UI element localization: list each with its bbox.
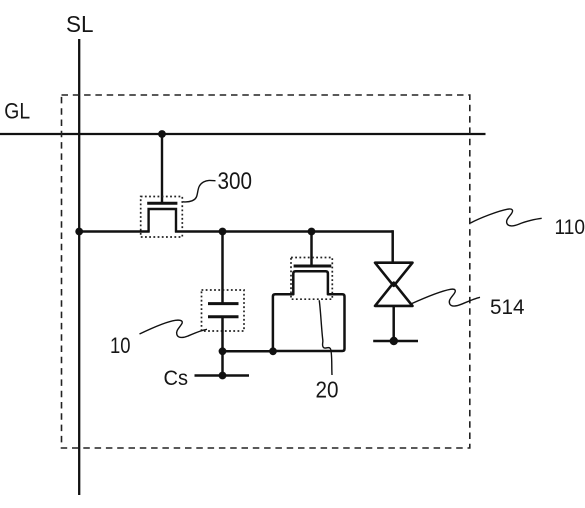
wire pixel node row (right segment from T300 to diode corner)	[175, 230, 393, 233]
svg-text:Cs: Cs	[164, 366, 189, 390]
wire diode cathode lead	[392, 306, 395, 341]
transistor 300 dotted outline box	[141, 197, 183, 238]
label 20	[316, 376, 339, 402]
label 514	[490, 295, 525, 319]
node junction dot at diode bottom	[390, 337, 398, 345]
node junction dot at element 20 bottom-left corner	[269, 347, 277, 355]
leader line to 300	[183, 180, 216, 201]
leader line to 514	[411, 289, 480, 306]
label 10	[110, 333, 131, 358]
wire gate of transistor 300	[161, 134, 163, 202]
transistor 20 channel and body outline	[273, 271, 345, 351]
wire pixel node row (left segment from SL to T300)	[79, 230, 149, 233]
leader line to 110	[471, 209, 542, 226]
transistor 300 channel/source-drain	[149, 209, 176, 233]
diode 514 lower triangle	[375, 283, 413, 306]
capacitor 10 bottom plate	[208, 315, 239, 318]
node junction dot on GL	[158, 130, 166, 138]
wire corner from node row down to diode 514	[391, 230, 394, 262]
node junction dot between cap and element 20 wire	[219, 347, 227, 355]
capacitor 10 top plate	[208, 302, 239, 305]
node junction dot gate branch of element 20	[308, 228, 316, 236]
label 110	[555, 215, 585, 239]
transistor 20 dotted outline box	[291, 258, 332, 300]
svg-text:20: 20	[316, 376, 339, 402]
wire capacitor bottom lead down to Cs	[221, 317, 224, 376]
svg-text:514: 514	[490, 295, 525, 319]
wire GL gate line (horizontal)	[0, 133, 486, 135]
leader line to 10	[140, 320, 208, 337]
node junction dot capacitor branch	[219, 228, 227, 236]
node junction dot at SL	[75, 228, 83, 236]
svg-text:GL: GL	[4, 99, 30, 124]
node SL label	[66, 11, 94, 37]
node GL label	[4, 99, 30, 124]
label 300	[218, 168, 253, 195]
common electrode terminal bar	[373, 340, 418, 342]
svg-text:300: 300	[218, 168, 253, 195]
wire SL source line (vertical)	[78, 39, 80, 495]
diode 514 upper triangle	[375, 263, 413, 286]
pixel boundary box 110 (dashed)	[62, 95, 470, 448]
wire gate lead of element 20	[310, 232, 313, 265]
node junction dot on Cs bar	[219, 372, 227, 380]
wire from capacitor node to element 20	[223, 350, 274, 353]
capacitor 10 dotted outline box	[202, 290, 245, 331]
transistor 300 gate electrode bar	[147, 202, 177, 205]
svg-text:110: 110	[555, 215, 585, 239]
Cs storage capacitor electrode bar	[195, 374, 250, 377]
wire capacitor top lead	[221, 232, 224, 304]
svg-text:10: 10	[110, 333, 131, 358]
leader line to 20	[319, 300, 332, 375]
transistor 20 gate electrode bar	[294, 265, 332, 268]
node Cs label	[164, 366, 189, 390]
svg-text:SL: SL	[66, 11, 94, 37]
